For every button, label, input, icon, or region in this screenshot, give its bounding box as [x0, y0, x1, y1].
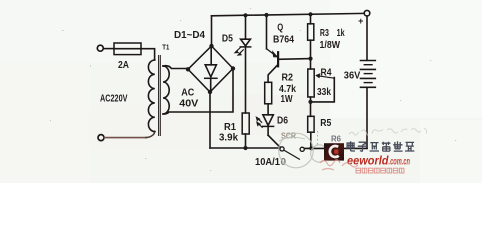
- svg-text:D6: D6: [277, 116, 288, 127]
- resistor R2: [265, 82, 272, 104]
- svg-text:Q: Q: [277, 23, 283, 34]
- background paper: [0, 0, 482, 183]
- svg-text:36V: 36V: [344, 71, 361, 82]
- transformer T1 secondary winding: [163, 66, 169, 114]
- svg-text:1/8W: 1/8W: [320, 40, 341, 51]
- terminal lower AC input: [98, 135, 104, 141]
- LED D5: [241, 39, 251, 46]
- transistor Q B764 emitter wire: [266, 15, 268, 49]
- svg-text:1k: 1k: [337, 28, 345, 39]
- watermark logo eeworld: [324, 143, 344, 160]
- node bridge right: [231, 66, 235, 70]
- svg-text:R1: R1: [224, 122, 236, 133]
- battery 36V terminal wire: [366, 16, 368, 60]
- wire bridge top to top rail: [211, 16, 213, 46]
- svg-text:2A: 2A: [118, 59, 129, 71]
- node bridge top: [209, 44, 213, 48]
- wire secondary top to bridge left: [163, 66, 188, 69]
- svg-text:AC220V: AC220V: [100, 93, 128, 104]
- watermark faint handwriting upper: [349, 128, 427, 136]
- transformer core: [158, 56, 160, 136]
- svg-text:T1: T1: [162, 42, 169, 51]
- svg-text:R5: R5: [320, 118, 331, 129]
- bottom rail right: [304, 147, 367, 149]
- wire terminal to fuse: [104, 48, 114, 50]
- node bridge left: [186, 67, 190, 71]
- resistor R3: [308, 24, 314, 40]
- switch arm: [284, 150, 300, 159]
- svg-text:+: +: [358, 16, 363, 26]
- svg-text:.com.cn: .com.cn: [389, 157, 411, 168]
- svg-text:3.9k: 3.9k: [219, 133, 238, 144]
- node base R3-R4: [308, 57, 312, 61]
- transformer T1 primary winding: [148, 60, 154, 132]
- terminal upper AC input: [97, 45, 103, 51]
- svg-text:D5: D5: [222, 33, 233, 44]
- resistor R5: [308, 116, 314, 132]
- watermark faint dotted line: [317, 131, 319, 147]
- node bridge bottom: [208, 90, 212, 94]
- svg-text:R2: R2: [282, 73, 294, 84]
- bottom rail left: [210, 147, 280, 149]
- node R1-rail: [243, 146, 247, 150]
- battery bottom wire: [366, 87, 368, 148]
- wire D6 to plug: [268, 135, 280, 147]
- wire secondary bottom to bridge right: [163, 69, 233, 115]
- svg-text:R3: R3: [320, 28, 329, 39]
- resistor R3 top wire: [310, 14, 312, 23]
- svg-text:10A/1: 10A/1: [255, 157, 280, 168]
- bridge inner diode: [210, 47, 212, 65]
- LED D6: [263, 115, 273, 126]
- svg-text:33k: 33k: [317, 87, 331, 98]
- node rail-Q: [264, 13, 268, 17]
- svg-text:R4: R4: [321, 67, 332, 78]
- watermark red script: [320, 160, 358, 170]
- wire fuse to primary top: [141, 49, 155, 60]
- watermark text 电子工程世界 (stroke-built glyphs): [347, 141, 414, 151]
- svg-text:R6: R6: [331, 133, 341, 143]
- LED D6 arrows: [257, 118, 262, 122]
- terminal battery +: [364, 10, 370, 16]
- battery 36V plates: [361, 60, 376, 62]
- resistor R1: [242, 113, 249, 134]
- node R4-R5: [308, 100, 312, 104]
- top rail: [212, 13, 365, 15]
- wire lower terminal to primary (brown): [104, 137, 146, 139]
- svg-text:40V: 40V: [179, 99, 198, 110]
- svg-text:1W: 1W: [281, 94, 293, 105]
- fuse FU 2A: [114, 43, 141, 55]
- rheostat R4: [308, 69, 314, 97]
- svg-text:AC: AC: [181, 88, 194, 99]
- watermark small red slogan: [356, 168, 404, 173]
- scan noise specks: [50, 8, 456, 171]
- plug / switch 10A contacts: [280, 147, 284, 151]
- node rail-D5: [243, 13, 247, 17]
- LED D5 drop wire: [245, 15, 247, 39]
- svg-text:B764: B764: [273, 35, 294, 46]
- junction dots: [186, 12, 314, 150]
- svg-text:D1~D4: D1~D4: [174, 30, 206, 41]
- wire bridge bottom to bottom rail: [209, 92, 211, 148]
- svg-text:eeworld: eeworld: [347, 154, 389, 168]
- bridge rectifier D1~D4 diamond: [188, 46, 233, 92]
- transistor Q B764: [267, 49, 277, 56]
- LED D5 arrows: [236, 48, 241, 53]
- node rail-R3: [308, 12, 312, 16]
- node R5-rail: [309, 146, 313, 150]
- watermark faint circles: [279, 133, 328, 168]
